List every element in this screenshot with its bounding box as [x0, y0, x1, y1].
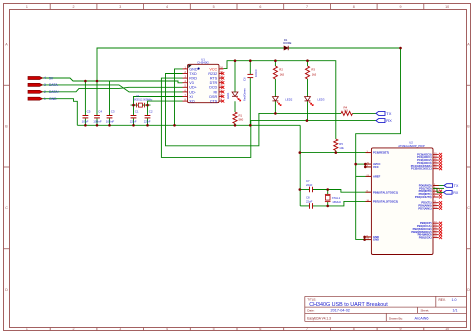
svg-text:PC5(ADC5/SCL): PC5(ADC5/SCL): [411, 167, 432, 171]
svg-text:RTS: RTS: [210, 77, 218, 81]
svg-text:16MHz: 16MHz: [332, 200, 341, 204]
svg-text:1: 1: [26, 327, 28, 331]
svg-text:5: 5: [213, 327, 215, 331]
svg-text:4: 4: [166, 327, 168, 331]
svg-text:TX: TX: [386, 111, 391, 116]
svg-text:GND: GND: [373, 238, 379, 242]
svg-text:TXD: TXD: [189, 72, 197, 76]
svg-text:6: 6: [259, 327, 261, 331]
svg-text:7: 7: [306, 327, 308, 331]
svg-text:CH340G USB to UART Breakout: CH340G USB to UART Breakout: [309, 302, 388, 308]
svg-text:1k5: 1k5: [280, 73, 285, 77]
svg-text:XI: XI: [189, 95, 192, 99]
svg-text:9: 9: [399, 327, 401, 331]
svg-text:8: 8: [353, 5, 355, 9]
svg-text:ATMEGA8A8P_PDIP: ATMEGA8A8P_PDIP: [398, 144, 425, 148]
svg-text:RX: RX: [453, 191, 459, 195]
svg-text:GND: GND: [49, 97, 57, 101]
svg-text:V3: V3: [189, 81, 194, 85]
svg-text:9: 9: [399, 5, 401, 9]
svg-text:8: 8: [353, 327, 355, 331]
svg-text:PB6(XTAL1/TOSC1): PB6(XTAL1/TOSC1): [373, 190, 398, 194]
svg-text:TX: TX: [454, 184, 459, 188]
svg-text:6: 6: [259, 5, 261, 9]
svg-text:R2: R2: [279, 68, 283, 72]
svg-text:1.0: 1.0: [452, 298, 457, 302]
svg-text:DATA+: DATA+: [49, 90, 60, 94]
svg-text:AREF: AREF: [373, 174, 381, 178]
svg-text:560: 560: [239, 118, 244, 122]
svg-text:22pF: 22pF: [306, 199, 313, 203]
svg-text:PB5(SCK): PB5(SCK): [419, 236, 432, 240]
svg-text:C5: C5: [87, 109, 91, 113]
svg-text:PB7(XTAL2/TOSC2): PB7(XTAL2/TOSC2): [373, 199, 398, 203]
svg-text:22pF: 22pF: [306, 183, 313, 187]
svg-text:2: 2: [73, 327, 75, 331]
svg-text:PD7(AIN1): PD7(AIN1): [418, 206, 431, 210]
svg-text:10uF: 10uF: [82, 119, 89, 123]
svg-text:C4: C4: [98, 109, 102, 113]
svg-text:100nF: 100nF: [254, 69, 258, 77]
svg-text:3: 3: [119, 327, 121, 331]
svg-text:RXD: RXD: [189, 77, 197, 81]
svg-text:VCC: VCC: [373, 165, 379, 169]
svg-text:C2: C2: [149, 109, 153, 113]
svg-text:D: D: [5, 288, 8, 292]
svg-text:Date:: Date:: [307, 309, 314, 313]
svg-text:4: 4: [44, 76, 46, 80]
svg-text:1/1: 1/1: [453, 309, 458, 313]
svg-text:C: C: [5, 206, 8, 210]
svg-text:1k5: 1k5: [312, 73, 317, 77]
svg-text:DCD: DCD: [209, 86, 217, 90]
svg-text:RI: RI: [214, 90, 218, 94]
svg-text:UD-: UD-: [189, 90, 196, 94]
svg-text:4: 4: [166, 5, 168, 9]
svg-text:REV.: REV.: [439, 298, 446, 302]
svg-text:5V: 5V: [49, 76, 54, 80]
svg-text:D: D: [467, 288, 470, 292]
svg-text:PC6(RESET): PC6(RESET): [373, 151, 389, 155]
svg-text:C3: C3: [111, 109, 115, 113]
svg-text:R232: R232: [208, 72, 217, 76]
svg-text:100nF: 100nF: [93, 119, 102, 123]
svg-text:C: C: [467, 206, 470, 210]
svg-text:3: 3: [44, 83, 46, 87]
svg-text:ArcAiN6: ArcAiN6: [415, 317, 429, 321]
svg-text:C1: C1: [135, 109, 139, 113]
svg-text:XO: XO: [189, 100, 194, 104]
svg-text:LED2: LED2: [285, 98, 292, 102]
svg-text:10: 10: [445, 5, 449, 9]
svg-text:5: 5: [213, 5, 215, 9]
svg-text:10k: 10k: [339, 146, 344, 150]
svg-text:DSR: DSR: [209, 95, 217, 99]
svg-text:LED1: LED1: [226, 92, 230, 99]
svg-text:7: 7: [306, 5, 308, 9]
svg-text:DIODE: DIODE: [283, 41, 291, 45]
svg-text:2: 2: [44, 90, 46, 94]
svg-text:VCC: VCC: [209, 67, 217, 71]
svg-text:PD4(XCK/T0): PD4(XCK/T0): [415, 195, 432, 199]
svg-text:22pF: 22pF: [130, 119, 137, 123]
svg-text:GND: GND: [189, 67, 198, 71]
svg-text:D1: D1: [284, 38, 288, 42]
svg-text:100nF: 100nF: [106, 119, 115, 123]
svg-text:2: 2: [73, 5, 75, 9]
svg-text:DATA-: DATA-: [49, 83, 59, 87]
svg-text:2017-04-02: 2017-04-02: [331, 309, 350, 313]
svg-text:C6: C6: [243, 77, 247, 81]
svg-text:RX: RX: [386, 118, 392, 123]
svg-text:3: 3: [119, 5, 121, 9]
svg-text:DTR: DTR: [210, 81, 218, 85]
svg-text:9XS512.000MHz: 9XS512.000MHz: [134, 98, 154, 101]
svg-text:1k5: 1k5: [344, 108, 349, 112]
svg-text:10: 10: [445, 327, 449, 331]
svg-text:Drawn By:: Drawn By:: [389, 317, 403, 321]
svg-text:Red/Green: Red/Green: [243, 88, 247, 101]
svg-text:R3: R3: [311, 68, 315, 72]
svg-text:LED3: LED3: [317, 98, 324, 102]
svg-text:22pF: 22pF: [144, 119, 151, 123]
svg-text:Sheet:: Sheet:: [421, 309, 430, 313]
svg-text:CTS: CTS: [210, 100, 218, 104]
svg-text:1: 1: [26, 5, 28, 9]
svg-text:UD+: UD+: [189, 86, 196, 90]
svg-text:EasyEDA V4.1.3: EasyEDA V4.1.3: [307, 317, 331, 321]
svg-text:1: 1: [44, 97, 46, 101]
svg-text:CH340G: CH340G: [197, 61, 209, 65]
